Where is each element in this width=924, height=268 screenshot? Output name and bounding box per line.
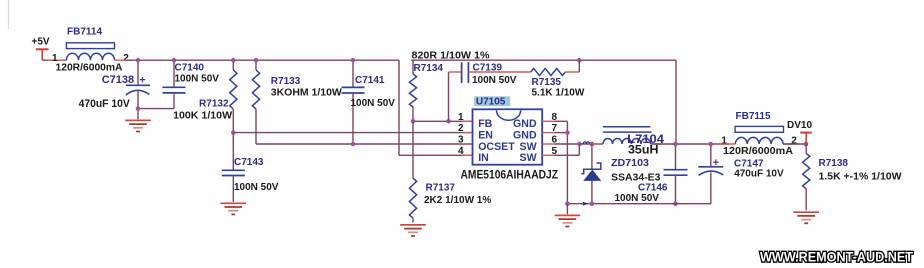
svg-text:C7143: C7143 bbox=[234, 157, 264, 168]
svg-text:2: 2 bbox=[458, 123, 464, 134]
svg-text:1: 1 bbox=[721, 136, 727, 147]
svg-text:100N 50V: 100N 50V bbox=[351, 98, 396, 109]
svg-text:R7138: R7138 bbox=[819, 158, 849, 169]
svg-text:C7138: C7138 bbox=[102, 74, 134, 86]
svg-text:FB: FB bbox=[478, 118, 492, 130]
svg-text:DV10: DV10 bbox=[787, 120, 812, 131]
svg-text:+: + bbox=[713, 157, 719, 169]
svg-text:2: 2 bbox=[791, 136, 797, 147]
svg-text:OCSET: OCSET bbox=[478, 141, 515, 153]
svg-text:470uF 10V: 470uF 10V bbox=[734, 169, 784, 180]
svg-text:R7133: R7133 bbox=[271, 76, 301, 87]
svg-text:IN: IN bbox=[478, 152, 489, 164]
svg-text:WWW.REMONT-AUD.NET: WWW.REMONT-AUD.NET bbox=[760, 249, 913, 265]
svg-text:AME5106AIHAADJZ: AME5106AIHAADJZ bbox=[461, 170, 559, 182]
svg-text:1: 1 bbox=[458, 112, 464, 123]
svg-text:C7146: C7146 bbox=[638, 182, 668, 193]
svg-text:3: 3 bbox=[458, 135, 464, 146]
svg-text:GND: GND bbox=[513, 130, 537, 142]
svg-text:100N 50V: 100N 50V bbox=[472, 75, 517, 86]
svg-text:100N 50V: 100N 50V bbox=[615, 193, 660, 204]
svg-text:120R/6000mA: 120R/6000mA bbox=[56, 63, 123, 74]
svg-text:3KOHM 1/10W: 3KOHM 1/10W bbox=[271, 87, 343, 98]
svg-text:R7132: R7132 bbox=[199, 99, 229, 110]
svg-text:GND: GND bbox=[513, 118, 537, 130]
svg-text:+: + bbox=[139, 74, 145, 86]
svg-text:1.5K +-1% 1/10W: 1.5K +-1% 1/10W bbox=[819, 172, 903, 183]
svg-text:470uF 10V: 470uF 10V bbox=[79, 98, 131, 110]
svg-text:4: 4 bbox=[458, 146, 464, 157]
svg-text:35uH: 35uH bbox=[628, 145, 659, 157]
svg-text:820R 1/10W 1%: 820R 1/10W 1% bbox=[412, 50, 490, 61]
svg-text:120R/6000mA: 120R/6000mA bbox=[723, 146, 793, 157]
svg-text:C7139: C7139 bbox=[473, 62, 503, 73]
svg-text:2K2 1/10W 1%: 2K2 1/10W 1% bbox=[424, 195, 491, 206]
svg-text:SW: SW bbox=[520, 141, 537, 153]
svg-text:100N 50V: 100N 50V bbox=[234, 182, 279, 193]
svg-text:100N 50V: 100N 50V bbox=[175, 74, 220, 85]
svg-text:5.1K 1/10W: 5.1K 1/10W bbox=[532, 87, 585, 98]
svg-text:R7134: R7134 bbox=[414, 63, 444, 74]
svg-text:U7105: U7105 bbox=[476, 96, 506, 107]
svg-text:C7140: C7140 bbox=[175, 63, 205, 74]
svg-text:FB7115: FB7115 bbox=[736, 111, 771, 122]
svg-text:C7141: C7141 bbox=[355, 75, 385, 86]
svg-text:100K 1/10W: 100K 1/10W bbox=[173, 110, 233, 121]
svg-text:ZD7103: ZD7103 bbox=[611, 158, 649, 169]
svg-text:EN: EN bbox=[478, 130, 493, 142]
svg-text:SW: SW bbox=[520, 152, 537, 164]
svg-text:2: 2 bbox=[123, 53, 129, 64]
svg-text:R7137: R7137 bbox=[426, 183, 456, 194]
svg-text:+5V: +5V bbox=[32, 36, 50, 47]
svg-text:FB7114: FB7114 bbox=[67, 26, 102, 37]
